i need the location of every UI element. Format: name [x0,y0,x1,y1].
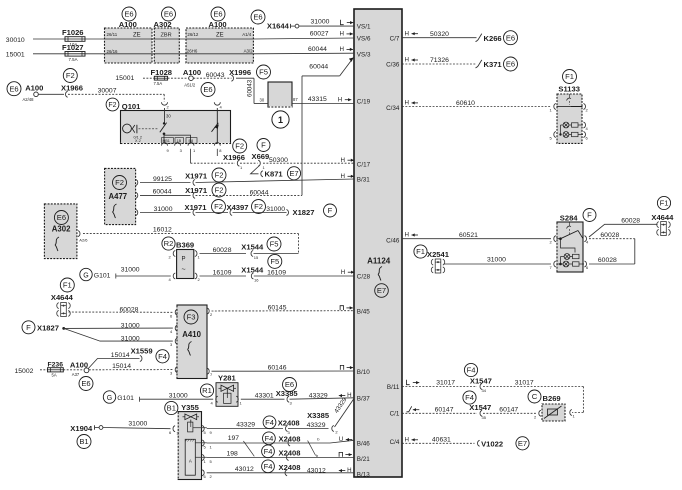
svg-text:A302: A302 [52,225,71,234]
wire to X1966 [191,162,236,164]
svg-text:60028: 60028 [600,232,619,239]
connector X1971 row1 [185,168,226,186]
svg-text:7.5A: 7.5A [69,57,78,62]
svg-text:X1971: X1971 [185,171,208,180]
svg-text:H: H [405,57,409,64]
arrow H into C/17 [341,157,355,164]
wire 60028 to X4644 [589,218,658,237]
Y281 valve symbol [219,385,237,403]
svg-text:43315: 43315 [308,96,327,103]
svg-text:15014: 15014 [112,363,131,370]
svg-text:H: H [405,436,409,443]
arrow H into C/19 [338,96,352,103]
svg-text:B1: B1 [79,437,88,446]
svg-text:A2/48: A2/48 [23,97,35,102]
svg-text:X1966: X1966 [223,153,245,162]
svg-text:Q101: Q101 [122,102,141,111]
valve Y281 box [216,383,238,407]
wire 43329 to bus B/37 [290,392,355,399]
S284 pin7 left [550,261,556,270]
wire F1026 to A100 [85,38,105,40]
arrow H from C/36 [405,57,419,64]
svg-text:F: F [328,206,333,215]
connector A100 left [7,82,43,102]
wire 60521 to S284 [402,232,551,239]
svg-text:X2408: X2408 [279,448,301,457]
connector X1966 [223,139,247,170]
twist mark a [243,441,254,456]
svg-text:F4: F4 [467,366,476,375]
connector X1996 [229,65,270,81]
arrow H from C/46 [405,232,419,239]
svg-text:60044: 60044 [308,46,327,53]
fuse F1028 [151,68,173,86]
bus A1124 right pin labels [386,36,400,447]
node A100 A51/2 [168,68,215,96]
switch unit A302 box (left) [44,204,77,259]
wire 60145 to bus B/45 [212,304,355,311]
wire 15002 [15,368,48,375]
A410 lower-left pin [170,367,177,376]
svg-text:A: A [189,459,192,464]
svg-text:60146: 60146 [268,364,287,371]
B369 pin2 left [169,251,176,260]
S284 pin6 right [584,261,589,270]
svg-text:31000: 31000 [487,257,506,264]
Q101 pin 3 bottom [175,143,183,153]
svg-text:Y355: Y355 [181,403,200,412]
svg-text:K371: K371 [484,60,503,69]
svg-text:B1: B1 [167,404,176,413]
connector X4644 left [51,278,74,317]
svg-text:X 2: X 2 [135,139,141,143]
A410 pin6 [170,309,177,318]
svg-text:H: H [341,269,345,276]
svg-text:60044: 60044 [250,190,269,197]
Y281 pin1 [236,396,242,405]
svg-text:X669: X669 [252,152,270,161]
Q101 switch blade [160,122,167,135]
wire 15001 [6,52,65,59]
svg-text:F5: F5 [270,257,279,266]
arrow H into VS/3 [340,46,354,53]
wire 31000 X1904 to Y355 [103,420,171,428]
Q101 internal wires [164,134,191,144]
wire 60147 to B269 [483,407,536,414]
wire row15 through boxes to bus VS/3 [105,52,355,55]
svg-text:A3/2: A3/2 [244,48,254,53]
svg-text:B/31: B/31 [357,177,370,184]
svg-text:E6: E6 [124,10,133,19]
svg-text:X4397: X4397 [227,203,249,212]
svg-text:X3385: X3385 [307,411,330,420]
svg-text:C/17: C/17 [357,162,371,169]
svg-text:E6: E6 [164,10,173,19]
ground G101 lower [103,391,139,403]
svg-text:31017: 31017 [515,380,534,387]
bus A1124 name [367,256,391,297]
svg-text:F5: F5 [259,68,268,77]
svg-text:C: C [532,392,538,401]
Q101 internal terminal boxes [162,138,198,144]
S284 contact [557,222,584,240]
label E6 A100 ZE right [187,7,253,53]
svg-text:16012: 16012 [153,227,172,234]
svg-text:F4: F4 [264,462,273,471]
svg-text:C/19: C/19 [357,99,371,106]
connector X2408 row1 [263,416,300,435]
Y281 pin4 [211,396,218,405]
svg-text:30010: 30010 [6,37,25,44]
svg-text:C/1: C/1 [390,411,400,418]
svg-text:31000: 31000 [121,323,140,330]
B369 pin2b right [195,273,201,282]
svg-text:60043: 60043 [206,72,225,79]
svg-text:15: 15 [254,255,259,260]
A410 pin4 [170,325,177,334]
svg-text:G101: G101 [94,273,111,280]
A477 pin row1 [136,180,138,186]
wire 31000 row3 [140,206,191,213]
svg-text:60028: 60028 [621,218,640,225]
wire 31000 X2541 to S284 [444,257,552,264]
svg-text:U: U [339,436,343,443]
svg-text:F236: F236 [48,361,64,368]
svg-text:H: H [405,30,409,37]
wire 30010 [6,37,65,44]
sensor B269 labels [528,390,561,403]
S284 lamp1 [564,254,579,260]
switch unit A302 labels [52,211,71,252]
wire 31000 to A410 pin4 [64,323,173,330]
svg-text:31000: 31000 [266,206,285,213]
wire 15001 to F1028 [115,75,154,82]
svg-text:C/46: C/46 [386,238,400,245]
wire row30 through boxes to bus VS/6 [105,38,355,39]
relay 1 pins and name [272,97,298,128]
svg-text:60147: 60147 [499,407,518,414]
wire 16012 dashed loop [83,227,299,254]
svg-text:26/16: 26/16 [107,49,119,54]
wire F1027 to A100 [85,53,105,55]
connector X1827 left [22,321,65,334]
svg-text:60610: 60610 [456,100,475,107]
svg-text:E6: E6 [506,60,515,69]
svg-text:43012: 43012 [235,466,254,473]
svg-text:VS/3: VS/3 [357,52,371,59]
svg-text:E6: E6 [81,379,90,388]
svg-text:26H6: 26H6 [187,48,198,53]
svg-text:197: 197 [228,435,240,442]
svg-text:A100: A100 [25,83,43,92]
wire 60043 down to relay 1 [236,78,268,103]
svg-text:B/45: B/45 [357,309,370,316]
svg-text:F4: F4 [264,447,273,456]
twist mark b [308,436,321,458]
Q101 pin 8 bottom [214,143,222,156]
S1133 labels [558,70,580,94]
svg-text:H: H [405,100,409,107]
Q101 contact left [132,125,142,143]
branch to K871 [251,166,263,177]
S1133 contact [557,94,583,107]
svg-text:31000: 31000 [154,206,173,213]
svg-text:16109: 16109 [213,269,232,276]
svg-text:60043: 60043 [247,79,254,97]
S284 pin2 left [550,236,556,245]
Q101 diode branch [212,111,219,144]
valve Y355 box [178,412,201,480]
control unit A410 box [177,305,207,379]
relay K871 [265,167,301,180]
connector X2408 row2 [263,432,301,446]
wire 30007 to Q101 [68,88,164,102]
wire 43329 row1b [288,422,329,429]
svg-text:E6: E6 [57,213,66,222]
B269 pin1 right [570,410,576,419]
svg-text:X1966: X1966 [61,83,83,92]
svg-text:X1827: X1827 [37,324,59,333]
svg-text:E6: E6 [285,380,294,389]
B369 pin1 right [195,251,201,260]
wire X1966 to X669 [240,162,258,164]
wire 31017 to B269 [483,380,583,413]
ground G101 upper [80,268,116,280]
svg-text:H: H [341,173,345,180]
svg-text:F1: F1 [416,247,425,256]
svg-text:B/37: B/37 [357,396,370,403]
svg-text:A1124: A1124 [367,256,391,265]
svg-text:F1026: F1026 [62,28,84,37]
svg-text:E6: E6 [203,85,212,94]
svg-text:F1028: F1028 [151,68,173,77]
connector X4397 [196,200,266,216]
svg-text:60028: 60028 [598,257,617,264]
svg-text:60044: 60044 [153,189,172,196]
fuse F1026 [62,28,85,47]
svg-text:G: G [107,395,112,402]
svg-text:B/10: B/10 [357,369,370,376]
svg-text:71326: 71326 [430,57,449,64]
svg-text:F2: F2 [115,178,124,187]
arrow into B/11 [407,380,420,385]
svg-text:X1904: X1904 [70,424,93,433]
svg-text:60028: 60028 [120,307,139,314]
svg-text:K871: K871 [265,170,284,179]
svg-text:99125: 99125 [153,176,172,183]
svg-text:VS/1: VS/1 [357,24,371,31]
arrow H from C/34 [405,100,419,107]
svg-text:H: H [405,232,409,239]
svg-text:E6: E6 [213,10,222,19]
connector X1971 row3 [185,200,226,216]
svg-text:A51/2: A51/2 [184,82,196,87]
svg-text:F2: F2 [214,202,223,211]
svg-text:B269: B269 [543,394,561,403]
connector X1544 upper [241,237,281,260]
svg-text:F: F [26,323,31,332]
wire 60044 row2 [140,189,191,196]
wire 43301 to X3385 [241,393,285,400]
Y355 pin right row3 [202,455,212,464]
ECU box A302 ZBR [154,28,179,63]
svg-text:X1971: X1971 [185,203,208,212]
connector X2541 [414,245,450,273]
svg-text:F1: F1 [63,281,72,290]
svg-text:F1: F1 [660,199,669,208]
wire 31017 to X1547 [402,380,477,387]
wire 60044 to riser [196,190,303,197]
svg-text:43329: 43329 [309,392,328,399]
switch S284 box [557,222,583,272]
connector X1966 left [38,69,83,98]
svg-text:F2: F2 [235,142,244,151]
svg-text:C/7: C/7 [390,36,400,43]
wire 43315 to bus C/19 [292,96,354,103]
S1133 lamp row1 [563,122,588,131]
svg-text:A37: A37 [72,372,80,377]
Y355 pin right row2 [202,440,212,449]
svg-text:F2: F2 [215,186,224,195]
arrow H from C/4 [405,436,419,443]
Y355 valve symbol [183,414,207,432]
svg-text:16109: 16109 [267,269,286,276]
wire 43329 diagonal to B/37 [333,396,354,427]
svg-text:H: H [338,96,342,103]
svg-text:A410: A410 [182,330,201,339]
wire 50300 to bus C/17 [263,157,354,164]
svg-text:50320: 50320 [430,31,449,38]
S1133 lamp row2 [550,125,589,141]
svg-text:31000: 31000 [128,420,147,427]
svg-text:X2408: X2408 [279,434,301,443]
svg-text:E7: E7 [289,169,298,178]
svg-text:60027: 60027 [310,31,329,38]
B369 pin4 left [169,273,176,282]
S284 lamp2 [557,257,585,267]
svg-text:31000: 31000 [311,19,330,26]
svg-text:F2: F2 [215,171,224,180]
wire 31000 G101 to B369 [116,266,171,276]
svg-text:R1: R1 [202,386,212,395]
svg-text:ZBR: ZBR [161,33,172,39]
arrow H into B/37 [339,392,352,399]
Y355 pin right row1 [202,426,212,435]
svg-text:A1/4: A1/4 [242,32,252,37]
wire 71326 to K371 [402,57,477,64]
svg-text:X1644: X1644 [267,21,290,30]
svg-text:15014: 15014 [111,352,130,359]
svg-text:X4644: X4644 [651,213,674,222]
connector X1547 upper [464,363,491,393]
svg-text:S284: S284 [560,214,579,223]
relay K266 [476,31,518,45]
connector X3385 lower [307,411,338,435]
svg-text:16: 16 [254,277,259,282]
svg-text:26/12: 26/12 [187,32,199,37]
sensor B269 box [542,404,565,421]
svg-text:H: H [341,157,345,164]
arrow into VS/1 [341,20,354,25]
svg-text:60145: 60145 [268,304,287,311]
svg-text:H: H [340,46,344,53]
svg-text:X2541: X2541 [427,250,450,259]
node A100 A37 [63,360,93,390]
svg-text:G101: G101 [117,395,134,402]
connector X1644 [251,10,299,30]
svg-text:F4: F4 [158,352,167,361]
svg-text:X1971: X1971 [185,186,208,195]
wire 60610 to S1133 [402,100,551,107]
svg-text:F1: F1 [565,72,574,81]
arrow P into B/45 [340,306,353,310]
A477 pin row2 [136,192,138,198]
ECU box A100 ZE (left) [105,28,153,63]
wire 60043 to X1996 [193,72,231,79]
svg-text:F: F [587,211,592,220]
Y355 pin left 6/3 [169,426,180,436]
arrow U into B/46 [339,436,353,443]
svg-text:F1027: F1027 [62,43,84,52]
svg-text:E7: E7 [518,439,527,448]
svg-text:C/4: C/4 [390,439,400,446]
svg-text:5A: 5A [52,373,57,378]
wire 43329 row1 [207,421,283,428]
wire 60028 to A410 pin6 [69,307,173,314]
connector X669 [252,139,271,170]
svg-text:60044: 60044 [309,63,328,70]
svg-text:30: 30 [260,98,265,103]
pressure sensor B369 box [177,250,194,279]
svg-text:60521: 60521 [459,232,478,239]
svg-text:C/34: C/34 [386,105,400,112]
svg-text:34: 34 [482,388,487,393]
svg-text:A100: A100 [209,20,227,29]
switch S1133 box [557,94,582,143]
wire 197 row2 [207,435,354,443]
svg-text:43329: 43329 [307,422,326,429]
svg-text:31000: 31000 [121,336,140,343]
wire 99125 to bus B/31 [196,179,355,183]
wire 50320 to K266 [402,31,477,38]
svg-text:E6: E6 [9,84,18,93]
wire 99125 [140,176,191,183]
svg-text:43301: 43301 [255,393,274,400]
A302 pin A2/6 [78,231,88,243]
svg-text:60028: 60028 [213,247,232,254]
S1133 pin1 left [550,104,556,113]
labels 60027 60044 to bus [308,31,329,53]
connector X2408 row4 [262,460,301,476]
svg-text:A302: A302 [154,20,172,29]
Y281 labels [200,373,236,397]
svg-text:X1547: X1547 [469,403,491,412]
svg-text:B/46: B/46 [357,441,370,448]
svg-text:43012: 43012 [307,468,326,475]
branch 15014 to X1559 [88,346,169,368]
Q101 pin 4 top [214,102,222,110]
wire 40631 to V1022 [402,437,475,444]
label E6 A100 ZE left [107,7,141,54]
svg-text:C/28: C/28 [357,273,371,280]
svg-text:F2: F2 [254,202,263,211]
svg-text:~: ~ [182,267,186,274]
svg-text:87: 87 [293,97,298,102]
wire 60028 to X1544 [200,247,247,254]
svg-text:R2: R2 [164,239,174,248]
bus A1124 left pin labels [357,24,371,479]
svg-text:198: 198 [227,450,239,457]
